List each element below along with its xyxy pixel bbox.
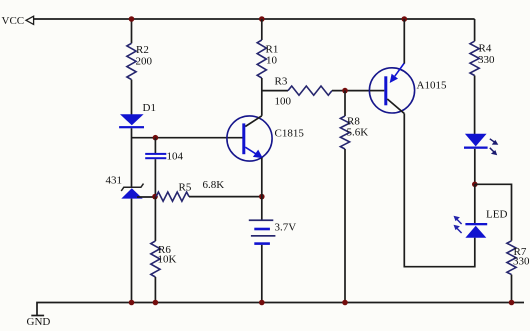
node top rail R2 junction xyxy=(129,16,135,22)
svg-text:R5: R5 xyxy=(179,182,192,194)
svg-text:GND: GND xyxy=(27,316,51,328)
svg-text:5.6K: 5.6K xyxy=(347,127,369,139)
regulator U431 triangle xyxy=(121,188,142,198)
resistor R8 xyxy=(340,116,349,149)
wire R7 to GND rail xyxy=(511,275,513,303)
wire R1 to collector corner xyxy=(261,78,263,116)
wire battery bottom to GND rail xyxy=(261,245,263,303)
wire C1815 emitter to battery node xyxy=(261,158,263,197)
wire LED node to R7 xyxy=(475,184,512,241)
wire D1 to 431 cathode xyxy=(131,128,133,187)
wire R5 to battery node xyxy=(189,196,262,198)
wire R1 top stub xyxy=(261,19,263,40)
svg-text:3.7V: 3.7V xyxy=(275,222,297,234)
svg-text:A1015: A1015 xyxy=(417,80,447,92)
battery BT 3.7V xyxy=(249,219,276,245)
LED D2 (top) xyxy=(464,134,498,156)
resistor R7 xyxy=(507,241,516,275)
resistor R4 xyxy=(470,41,479,75)
regulator U431 zener bar xyxy=(121,184,143,191)
svg-text:R3: R3 xyxy=(275,76,288,88)
node R8 top junction xyxy=(342,88,348,94)
resistor R5 xyxy=(156,192,189,201)
svg-text:330: 330 xyxy=(478,54,495,66)
svg-text:104: 104 xyxy=(167,151,184,163)
wire R6 top stub xyxy=(154,197,156,241)
node top rail A1015 emitter junction xyxy=(402,16,408,22)
svg-text:330: 330 xyxy=(513,256,530,268)
node GND rail battery junction xyxy=(259,300,265,306)
svg-text:R4: R4 xyxy=(479,43,492,55)
wire LED node to LED2 xyxy=(474,184,476,224)
svg-text:6.8K: 6.8K xyxy=(203,179,225,191)
wire A1015 collector loop xyxy=(404,114,475,267)
node GND rail R6 junction xyxy=(153,300,159,306)
wire top VCC rail xyxy=(34,18,475,20)
wire R3 to R8 node xyxy=(332,90,370,92)
wire A1015 emitter to top rail xyxy=(403,19,405,64)
wire R8 to GND rail xyxy=(344,149,346,303)
node GND rail R8 junction xyxy=(342,300,348,306)
wire R3 left stub xyxy=(262,90,288,92)
svg-text:VCC: VCC xyxy=(2,15,25,27)
wire battery top stub xyxy=(261,197,263,221)
VCC arrow xyxy=(26,16,34,24)
svg-text:200: 200 xyxy=(136,56,153,68)
LED D3 (bottom) xyxy=(454,216,488,238)
node LED junction xyxy=(472,182,478,188)
svg-text:100: 100 xyxy=(275,96,292,108)
wire cap top stub xyxy=(154,138,156,153)
wire R2 top stub xyxy=(131,19,133,43)
svg-text:431: 431 xyxy=(106,175,123,187)
diode D1 xyxy=(119,114,144,128)
node capacitor top junction xyxy=(153,135,159,141)
wire A1015 base from R8 node xyxy=(370,90,384,92)
node battery top junction xyxy=(259,194,265,200)
resistor R1 xyxy=(257,40,266,78)
wire D1 node to C1815 base xyxy=(132,137,244,139)
svg-text:C1815: C1815 xyxy=(275,128,305,140)
wire R8 top stub xyxy=(344,91,346,116)
wire GND bottom rail xyxy=(37,303,524,316)
capacitor C 104 xyxy=(145,153,166,159)
wire R4 to LED1 xyxy=(474,76,476,135)
wire R4 top stub xyxy=(474,19,476,41)
transistor Q1 C1815 xyxy=(227,116,272,161)
node R5 left junction xyxy=(152,194,158,200)
resistor R3 xyxy=(288,86,332,95)
wire 431 anode down to GND rail xyxy=(131,199,133,303)
transistor Q2 A1015 xyxy=(369,63,414,114)
svg-text:LED: LED xyxy=(486,209,507,221)
wire R2 to D1 xyxy=(131,80,133,115)
wire R6 to GND rail xyxy=(154,277,156,303)
resistor R2 xyxy=(127,43,136,79)
wire cap bottom to R5 node xyxy=(154,159,156,196)
node GND rail 431 junction xyxy=(129,300,135,306)
node top rail R1 junction xyxy=(259,16,265,22)
node GND rail R7 junction xyxy=(509,300,515,306)
wire 431 ref to R5 node xyxy=(137,196,156,198)
svg-text:R2: R2 xyxy=(136,44,149,56)
ground tick xyxy=(31,315,44,317)
svg-text:D1: D1 xyxy=(143,102,156,114)
wire LED1 to LED node xyxy=(474,149,476,185)
svg-text:10K: 10K xyxy=(158,254,177,266)
svg-text:10: 10 xyxy=(266,55,278,67)
resistor R6 xyxy=(151,241,160,277)
